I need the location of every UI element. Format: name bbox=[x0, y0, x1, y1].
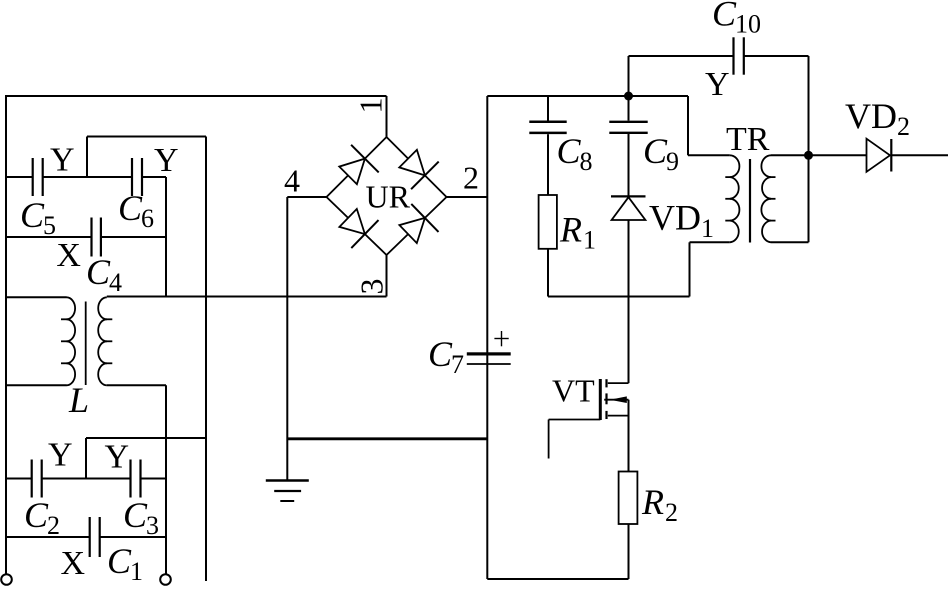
transformer TR primary winding bbox=[730, 155, 740, 242]
svg-text:VD: VD bbox=[649, 198, 701, 238]
wire bbox=[744, 55, 809, 57]
bridge rectifier UR diamond bbox=[327, 137, 447, 255]
svg-text:2: 2 bbox=[897, 112, 910, 141]
wire bbox=[386, 96, 388, 138]
svg-text:VD: VD bbox=[845, 96, 897, 136]
terminal right bbox=[160, 574, 171, 585]
wire bbox=[101, 236, 166, 238]
wire bbox=[690, 241, 730, 243]
bridge diode bottom-left bbox=[339, 209, 365, 234]
capacitor C1 bbox=[89, 517, 91, 557]
svg-text:C: C bbox=[20, 195, 45, 235]
inductor L core bbox=[85, 302, 87, 386]
wire node 4 bbox=[287, 196, 326, 198]
svg-text:C: C bbox=[557, 131, 582, 171]
node 1 bbox=[353, 98, 389, 114]
capacitor C8 bbox=[529, 121, 566, 124]
capacitor C3 bbox=[129, 460, 131, 498]
svg-text:7: 7 bbox=[451, 350, 464, 379]
wire earth line bbox=[205, 137, 207, 582]
wire bbox=[809, 154, 867, 156]
wire bbox=[891, 154, 948, 156]
junction output node bbox=[804, 151, 813, 160]
wire bbox=[547, 96, 549, 121]
wire bbox=[87, 136, 206, 138]
wire bbox=[6, 478, 32, 480]
capacitor C7 bbox=[467, 352, 511, 355]
svg-text:2: 2 bbox=[665, 498, 678, 527]
capacitor C6 bbox=[131, 158, 133, 196]
wire bbox=[165, 177, 167, 297]
wire bbox=[771, 154, 809, 156]
wire bbox=[487, 95, 688, 97]
capacitor C5 bbox=[32, 158, 34, 196]
resistor R2 bbox=[619, 472, 638, 525]
junction bbox=[624, 92, 633, 101]
wire node 3 bbox=[386, 255, 388, 297]
svg-text:TR: TR bbox=[726, 121, 770, 158]
capacitor C9 bbox=[609, 121, 647, 123]
svg-text:3: 3 bbox=[354, 279, 390, 295]
svg-text:C: C bbox=[107, 541, 132, 581]
svg-text:8: 8 bbox=[580, 147, 593, 176]
svg-text:5: 5 bbox=[43, 211, 56, 240]
wire bbox=[628, 220, 630, 383]
svg-text:4: 4 bbox=[284, 163, 300, 199]
svg-text:C: C bbox=[86, 252, 111, 292]
wire bbox=[628, 56, 630, 96]
svg-text:1: 1 bbox=[130, 557, 143, 586]
svg-text:10: 10 bbox=[735, 10, 761, 39]
svg-text:R: R bbox=[559, 210, 582, 250]
wire bbox=[6, 176, 33, 178]
svg-text:1: 1 bbox=[353, 98, 389, 114]
wire bbox=[43, 176, 132, 178]
wire bbox=[107, 296, 387, 298]
svg-text:1: 1 bbox=[583, 226, 596, 255]
wire bbox=[689, 242, 691, 296]
wire bbox=[5, 95, 7, 574]
wire bbox=[687, 96, 689, 155]
C7 polarity plus bbox=[494, 338, 508, 340]
svg-text:Y: Y bbox=[48, 437, 73, 474]
svg-text:VT: VT bbox=[552, 373, 595, 409]
wire bbox=[286, 197, 288, 480]
ground bbox=[266, 479, 309, 482]
wire bbox=[628, 134, 630, 196]
transistor VT drain lead bbox=[608, 382, 629, 384]
wire bbox=[165, 385, 167, 574]
svg-text:L: L bbox=[68, 380, 89, 420]
svg-text:Y: Y bbox=[50, 142, 75, 179]
wire bbox=[547, 249, 549, 297]
wire bbox=[487, 578, 628, 580]
svg-text:9: 9 bbox=[666, 147, 679, 176]
svg-text:C: C bbox=[428, 334, 453, 374]
svg-text:C: C bbox=[712, 0, 737, 34]
wire node 2 bbox=[447, 196, 488, 198]
svg-text:4: 4 bbox=[109, 268, 122, 297]
transistor VT gate lead bbox=[549, 419, 601, 421]
wire bbox=[42, 478, 131, 480]
bridge diode top-right bbox=[399, 150, 425, 176]
svg-text:6: 6 bbox=[141, 204, 154, 233]
diode VD2 bbox=[867, 139, 891, 172]
inductor L right winding bbox=[98, 297, 107, 385]
terminal left bbox=[1, 574, 12, 585]
wire right rail bbox=[486, 96, 488, 579]
wire bbox=[688, 154, 730, 156]
resistor R1 bbox=[539, 195, 557, 249]
wire bbox=[6, 384, 67, 386]
svg-text:Y: Y bbox=[105, 439, 130, 476]
svg-text:3: 3 bbox=[146, 511, 159, 540]
svg-text:C: C bbox=[643, 131, 668, 171]
capacitor C4 bbox=[90, 218, 92, 257]
diode VD1 bbox=[611, 195, 646, 197]
capacitor C2 bbox=[31, 460, 33, 498]
wire bbox=[548, 296, 690, 298]
inductor L left winding bbox=[67, 297, 76, 385]
svg-text:C: C bbox=[123, 495, 148, 535]
wire bbox=[628, 96, 630, 121]
bridge diode top-left bbox=[339, 159, 365, 185]
svg-text:1: 1 bbox=[701, 214, 714, 243]
wire bbox=[287, 437, 487, 440]
node 3 bbox=[354, 279, 390, 295]
svg-text:2: 2 bbox=[47, 511, 60, 540]
svg-text:R: R bbox=[641, 482, 664, 522]
capacitor C10 bbox=[732, 37, 734, 74]
svg-text:UR: UR bbox=[366, 179, 411, 215]
wire bbox=[771, 241, 809, 243]
wire bbox=[6, 296, 67, 298]
svg-text:X: X bbox=[61, 545, 86, 582]
wire bbox=[86, 137, 88, 178]
wire bbox=[629, 55, 734, 57]
svg-text:2: 2 bbox=[463, 160, 479, 196]
transistor VT source lead bbox=[608, 415, 629, 417]
wire bbox=[808, 56, 810, 242]
svg-text:Y: Y bbox=[705, 66, 730, 103]
wire bbox=[628, 524, 630, 579]
svg-text:Y: Y bbox=[154, 142, 179, 179]
wire bbox=[142, 176, 166, 178]
wire bbox=[100, 536, 166, 538]
wire bbox=[6, 536, 90, 538]
wire bbox=[107, 384, 166, 386]
wire bbox=[628, 400, 630, 472]
svg-text:C: C bbox=[24, 495, 49, 535]
wire bbox=[6, 236, 92, 238]
wire bbox=[85, 438, 87, 479]
transformer TR secondary winding bbox=[761, 155, 771, 242]
wire bbox=[86, 437, 206, 439]
svg-text:C: C bbox=[118, 188, 143, 228]
transistor VT gate bbox=[599, 379, 602, 420]
bridge diode bottom-right bbox=[399, 218, 425, 243]
svg-text:X: X bbox=[56, 237, 81, 274]
transformer TR core bbox=[749, 159, 751, 243]
wire bbox=[141, 478, 167, 480]
wire bbox=[6, 95, 387, 97]
transistor VT body arrow bbox=[604, 399, 628, 401]
transistor VT channel bbox=[605, 379, 607, 387]
wire bbox=[547, 134, 549, 197]
